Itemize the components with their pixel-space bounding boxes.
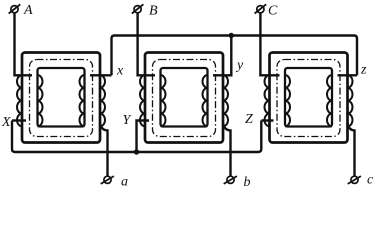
- transformer T2 core dash-dot flux line: [153, 60, 216, 137]
- winding secondary T1 (right leg): [80, 75, 85, 126]
- svg-text:B: B: [149, 4, 158, 19]
- svg-text:b: b: [244, 175, 251, 190]
- svg-text:y: y: [235, 58, 244, 73]
- svg-text:C: C: [268, 4, 278, 19]
- terminal C: [257, 6, 264, 13]
- svg-text:X: X: [1, 115, 11, 130]
- top bus connecting x,y,z (secondary neutral): [112, 36, 358, 76]
- winding secondary T3 (right leg): [327, 75, 332, 126]
- wire: T2 secondary bottom lead down to terminal b: [223, 123, 231, 176]
- wire: z foot into T3 secondary top: [338, 74, 358, 76]
- wire: T1 secondary bottom lead down to terminal a: [100, 123, 108, 176]
- wire: Y drop from T2 primary bottom to bottom bus: [137, 121, 150, 153]
- transformer T3 core dash-dot flux line: [277, 60, 340, 137]
- wire: phase C lead down to T3 primary top: [260, 13, 279, 76]
- wire: y drop from top bus to T2 secondary top: [213, 36, 231, 76]
- transformer T1 core window: [38, 68, 85, 127]
- winding primary T2 (left leg): [140, 75, 145, 126]
- wire: phase A lead down to T1 primary top: [15, 13, 33, 76]
- svg-text:z: z: [360, 63, 367, 78]
- svg-text:Z: Z: [245, 112, 253, 127]
- svg-text:a: a: [121, 175, 128, 190]
- terminal B: [134, 6, 141, 13]
- winding primary T1 (left leg): [17, 75, 22, 126]
- terminal a: [104, 176, 111, 183]
- svg-text:x: x: [116, 64, 124, 79]
- transformer T1 core dash-dot flux line: [30, 60, 93, 137]
- transformer T1 core outer: [22, 53, 100, 143]
- transformer T3 core window: [285, 68, 332, 127]
- winding primary T3 (left leg): [265, 75, 270, 126]
- transformer T2 core outer: [145, 53, 223, 143]
- wire: T3 secondary bottom lead down to terminal c: [348, 123, 355, 176]
- winding secondary T2 (right leg): [203, 75, 208, 126]
- transformer T2 core window: [161, 68, 208, 127]
- wire: phase B lead down to T2 primary top: [138, 13, 155, 76]
- svg-text:A: A: [23, 3, 33, 18]
- wire: X stub from T1 primary bottom: [12, 119, 26, 121]
- terminal c: [351, 176, 358, 183]
- terminal A: [11, 6, 18, 13]
- transformer T3 core outer: [270, 53, 348, 143]
- junction dot Y on bottom bus: [134, 149, 139, 154]
- junction dot y on top bus: [229, 33, 234, 38]
- wire: x foot into T1 secondary top: [90, 74, 112, 76]
- bottom bus connecting X,Y,Z (primary neutral): [12, 121, 261, 153]
- svg-text:c: c: [367, 173, 374, 188]
- terminal b: [227, 176, 234, 183]
- wire: Z stub from T3 primary bottom: [261, 119, 273, 121]
